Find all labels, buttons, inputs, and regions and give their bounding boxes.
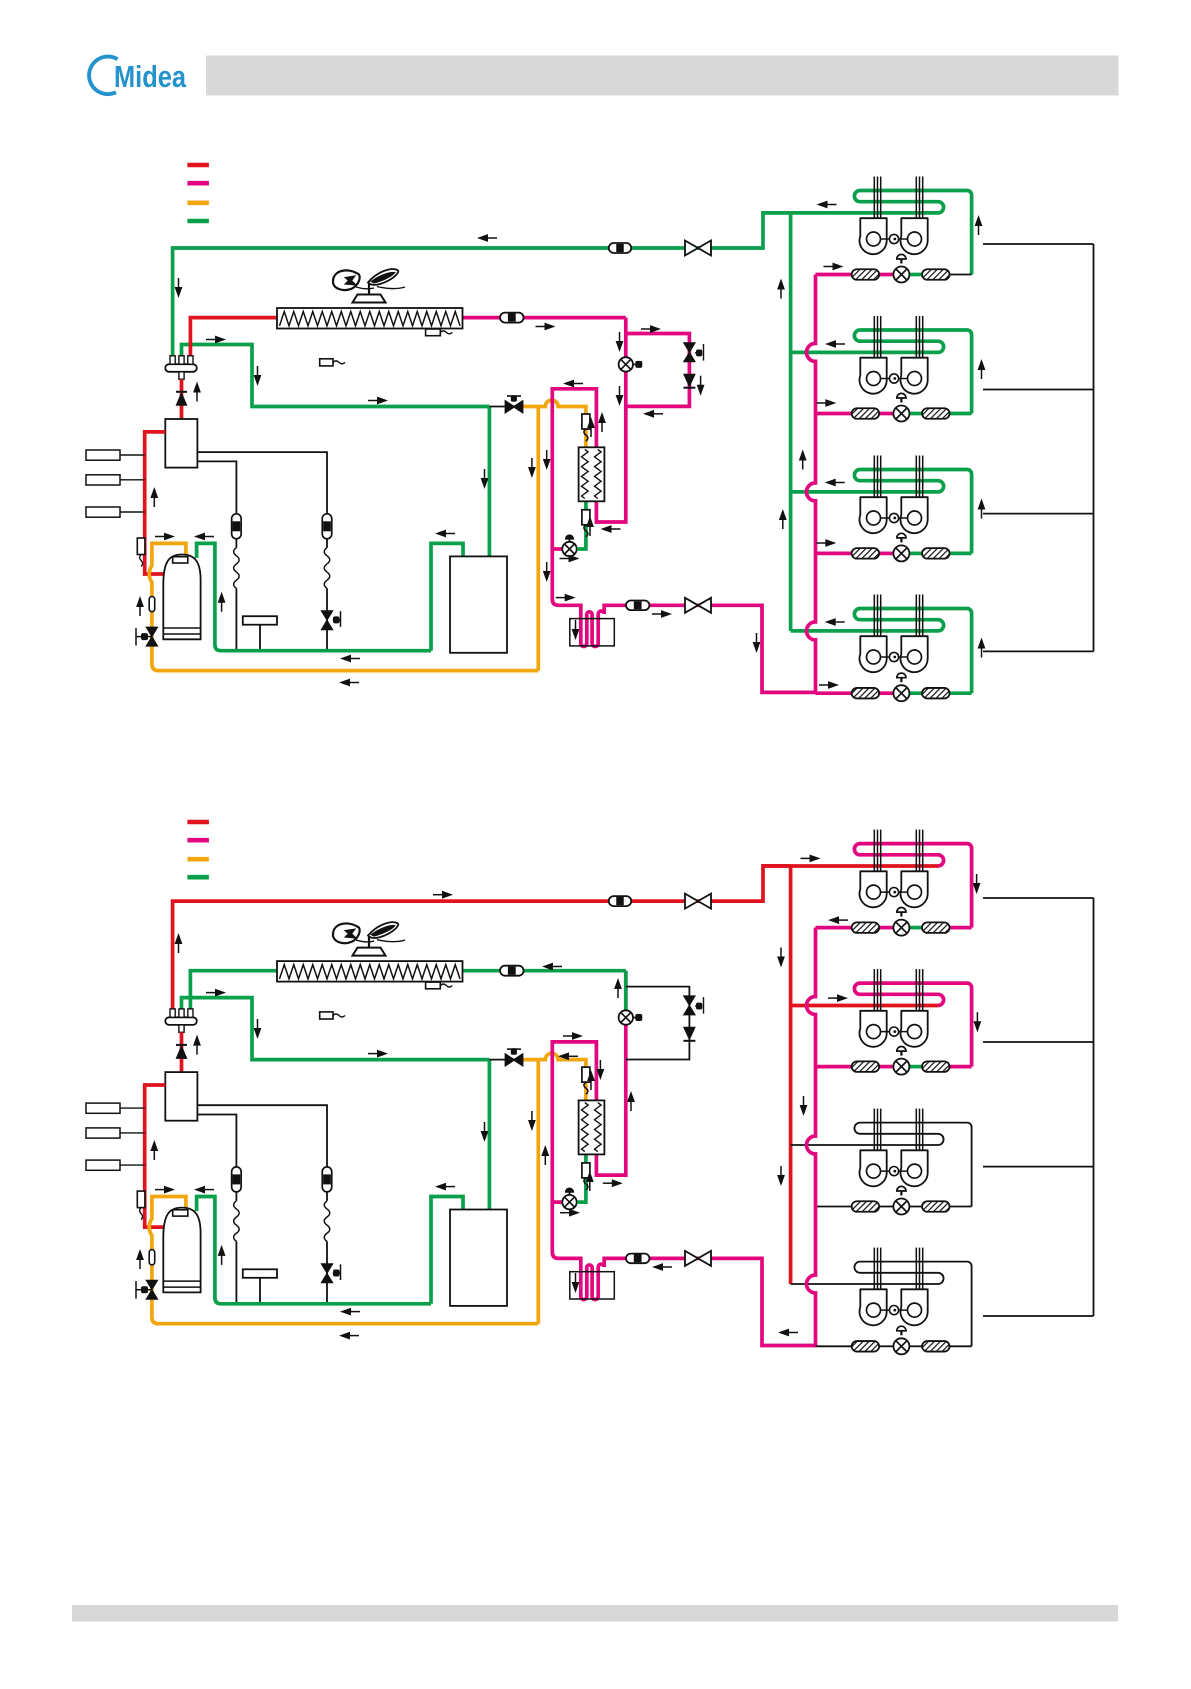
svg-text:Midea: Midea xyxy=(114,59,187,94)
